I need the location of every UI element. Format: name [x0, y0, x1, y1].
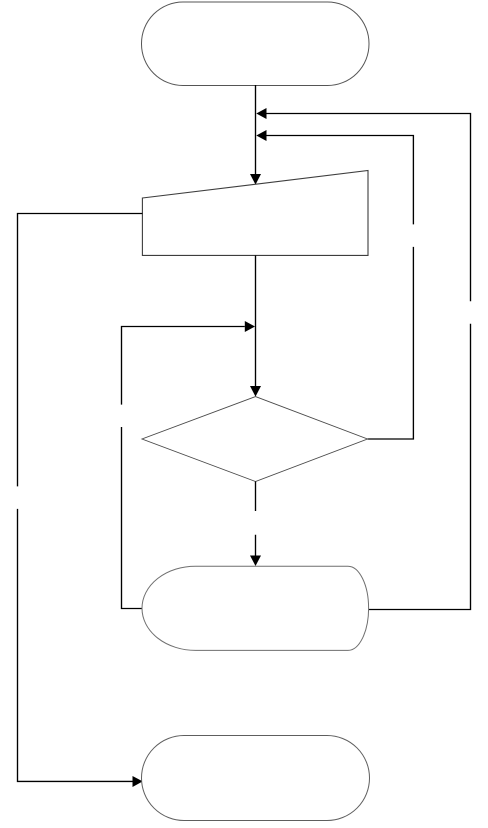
arrowhead right at y=326: [245, 321, 255, 332]
arrowhead into hexagon: [250, 556, 261, 567]
wire: trapezoid left to far-left rail down to bottom stadium: [18, 214, 143, 782]
wire: trapezoid bottom down to diamond top: [255, 255, 257, 386]
arrowhead right into bottom stadium: [133, 776, 143, 787]
terminator (top stadium): [142, 2, 370, 86]
wire: loop from diamond right, up, arrow into main line (y=135.5): [267, 136, 414, 440]
wire: stadium bottom to trapezoid top: [255, 85, 257, 175]
arrowhead into diamond: [250, 386, 261, 397]
arrowhead left at y=135.5: [256, 130, 266, 141]
terminator (hexagon-like shape with elliptical caps): [142, 566, 369, 650]
decision (diamond): [142, 397, 368, 482]
arrowhead into trapezoid: [250, 174, 261, 185]
terminator (bottom stadium): [142, 736, 370, 821]
wire: loop from hexagon right, up right side, arrow into main line (y=113.5): [267, 114, 471, 610]
wire: diamond bottom to hexagon top (broken/dashed): [255, 482, 257, 557]
wire: from hexagon left point, up left inner rail, arrow into main line (y=326): [122, 327, 245, 609]
arrowhead left at y=113.5: [256, 108, 266, 119]
process (trapezoid, slanted top): [142, 171, 368, 256]
